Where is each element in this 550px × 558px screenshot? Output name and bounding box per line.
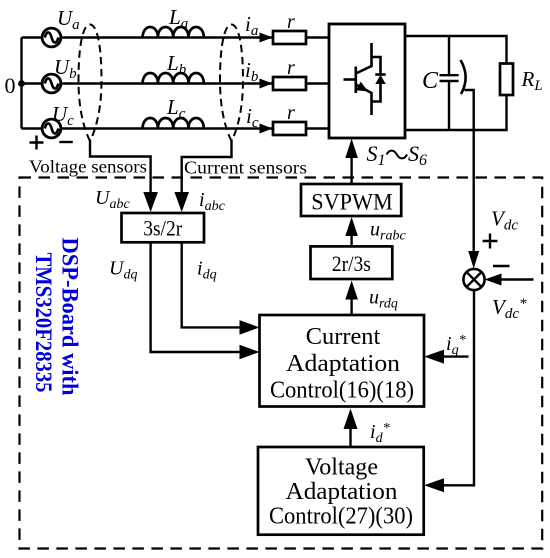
svg-text:2r/3s: 2r/3s [332, 251, 371, 276]
svg-text:3s/2r: 3s/2r [143, 216, 182, 241]
svg-text:Current sensors: Current sensors [184, 158, 307, 178]
svg-text:r: r [287, 102, 295, 124]
svg-text:r: r [287, 11, 295, 33]
svg-text:r: r [287, 57, 295, 79]
svg-text:Adaptation: Adaptation [286, 479, 398, 505]
svg-text:Voltage sensors: Voltage sensors [29, 157, 147, 177]
svg-text:Voltage: Voltage [305, 455, 378, 481]
svg-text:TMS320F28335: TMS320F28335 [31, 253, 56, 393]
svg-text:C: C [422, 68, 439, 94]
svg-text:SVPWM: SVPWM [311, 190, 393, 215]
svg-text:Current: Current [306, 324, 381, 350]
svg-text:DSP-Board with: DSP-Board with [58, 238, 83, 396]
svg-text:0: 0 [5, 73, 16, 98]
svg-text:Control(27)(30): Control(27)(30) [269, 504, 413, 530]
svg-text:Control(16)(18): Control(16)(18) [270, 378, 414, 404]
svg-text:Adaptation: Adaptation [286, 351, 400, 377]
